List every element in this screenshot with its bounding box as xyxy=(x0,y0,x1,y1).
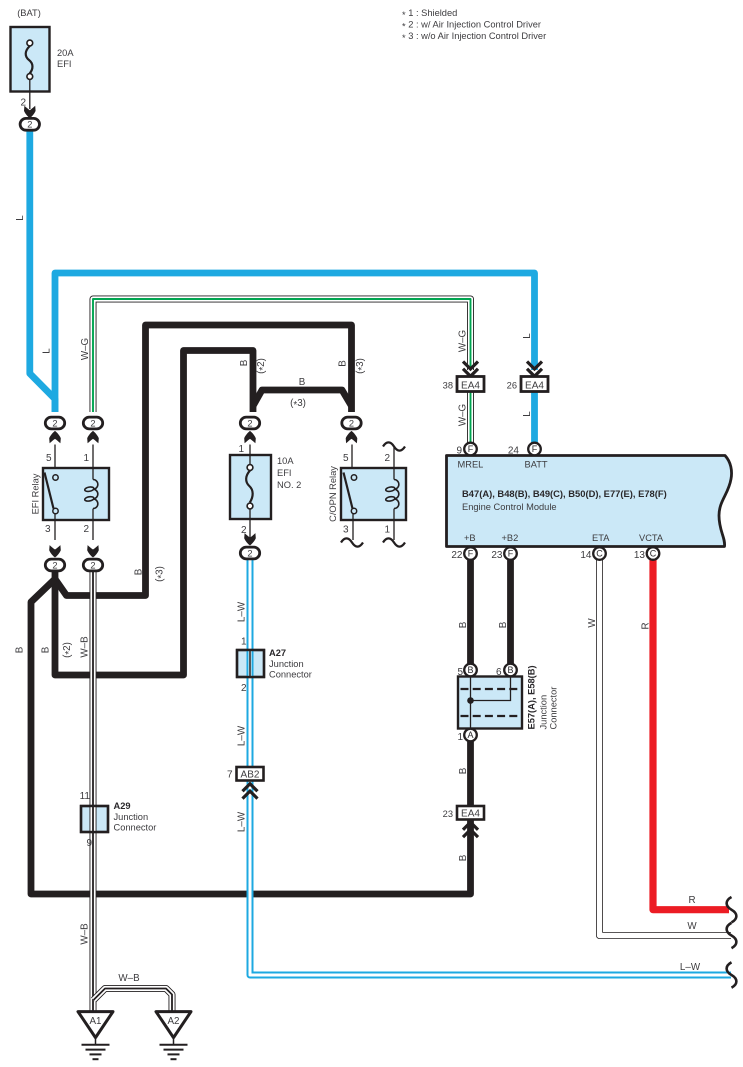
wire B outer ground loop left and bottom xyxy=(31,579,471,894)
label B on fuse drop riser xyxy=(239,359,250,366)
ground A2 xyxy=(156,1012,191,1060)
svg-text:W: W xyxy=(687,921,697,932)
svg-text:BATT: BATT xyxy=(525,460,548,470)
label B between 1A and EA4-23 xyxy=(458,767,469,774)
label R on vertical xyxy=(641,622,652,629)
chevron double arrow below EA4-23 xyxy=(463,822,478,837)
svg-text:+B2: +B2 xyxy=(502,533,519,543)
svg-text:5: 5 xyxy=(457,667,463,678)
squiggle W end xyxy=(727,923,737,948)
oval 2 below EFI relay pin2 xyxy=(83,559,102,571)
svg-text:14: 14 xyxy=(580,550,592,561)
svg-text:A1: A1 xyxy=(90,1016,102,1027)
wire R from ECM VCTA to right edge xyxy=(653,559,729,910)
svg-text:AB2: AB2 xyxy=(241,770,260,781)
svg-text:ETA: ETA xyxy=(592,533,610,543)
svg-text:W–G: W–G xyxy=(458,330,469,352)
svg-text:A2: A2 xyxy=(168,1016,180,1027)
label Junction rotated xyxy=(539,695,549,730)
wire L horizontal feed to BATT xyxy=(55,273,535,412)
junction connector A27 xyxy=(237,650,264,677)
legend note xyxy=(402,8,546,43)
svg-text:L: L xyxy=(15,215,26,221)
svg-text:23: 23 xyxy=(491,550,503,561)
svg-text:1: 1 xyxy=(238,444,244,455)
svg-text:L: L xyxy=(522,411,533,417)
label W-B upper xyxy=(80,636,91,658)
svg-text:(*2): (*2) xyxy=(62,642,75,658)
svg-text:5: 5 xyxy=(46,453,52,464)
svg-text:A29: A29 xyxy=(114,801,131,811)
squiggle C/OPN pin3 bottom xyxy=(341,538,363,546)
svg-text:3: 3 xyxy=(45,524,51,535)
wire L-W from AB2 to right edge xyxy=(250,781,731,975)
wire W from ECM ETA to right edge xyxy=(600,559,732,936)
wire W-G from EA4-38 to ECM MREL pin xyxy=(467,392,474,444)
svg-text:24: 24 xyxy=(508,446,520,457)
label L above EFI relay xyxy=(42,348,53,354)
svg-text:B: B xyxy=(15,646,26,653)
svg-text:R: R xyxy=(641,622,652,629)
svg-text:2: 2 xyxy=(384,453,390,464)
ECM pin 23 +B2 xyxy=(491,547,516,561)
svg-text:B: B xyxy=(507,665,513,675)
chevron double arrow below AB2 xyxy=(243,784,258,799)
svg-text:13: 13 xyxy=(634,550,646,561)
svg-text:R: R xyxy=(688,895,695,906)
svg-text:23: 23 xyxy=(443,809,453,819)
label B on x146 riser xyxy=(134,568,145,575)
svg-text:EA4: EA4 xyxy=(461,809,480,820)
oval 2 below EFI relay pin3 xyxy=(45,559,64,571)
label B on +B wire xyxy=(458,621,469,628)
svg-text:* 1 : Shielded: * 1 : Shielded xyxy=(402,8,457,20)
svg-text:E57(A), E58(B): E57(A), E58(B) xyxy=(527,665,537,729)
svg-text:NO. 2: NO. 2 xyxy=(277,480,301,490)
label W-G below EA4-38 xyxy=(458,404,469,426)
label L below EA4-26 xyxy=(522,411,533,417)
wire L-W from fuse NO.2 through A27 to AB2 xyxy=(247,560,254,767)
wire W-G from EFI relay pin1 to EA4-38 xyxy=(93,299,471,412)
svg-text:EFI Relay: EFI Relay xyxy=(31,473,41,514)
label Connector rotated xyxy=(549,687,559,730)
svg-text:L–W: L–W xyxy=(237,725,248,746)
svg-text:6: 6 xyxy=(496,667,502,678)
arrow up at EFI relay pin5 xyxy=(49,431,61,443)
svg-text:9: 9 xyxy=(456,446,462,457)
svg-text:Junction: Junction xyxy=(269,659,304,669)
C/OPN relay xyxy=(328,445,406,541)
svg-text:L–W: L–W xyxy=(237,811,248,832)
svg-text:EFI: EFI xyxy=(277,468,291,478)
svg-text:2: 2 xyxy=(247,548,252,558)
svg-text:B: B xyxy=(498,621,509,628)
ground A1 xyxy=(78,1012,113,1060)
ECM pin 14 ETA xyxy=(580,547,605,561)
svg-text:Connector: Connector xyxy=(549,687,559,730)
svg-text:L: L xyxy=(522,333,533,339)
arrow down at EFI relay pin3 xyxy=(49,545,61,557)
A29 labels xyxy=(80,791,157,849)
svg-text:10A: 10A xyxy=(277,456,294,466)
label L-W 1 xyxy=(237,601,248,622)
svg-text:2: 2 xyxy=(27,120,32,130)
svg-text:F: F xyxy=(532,444,538,454)
svg-text:B: B xyxy=(458,767,469,774)
E57 pin 5 circle B xyxy=(457,664,476,678)
ECM pin 24 BATT xyxy=(508,443,541,457)
label W on vertical xyxy=(587,618,598,628)
svg-text:2: 2 xyxy=(247,418,252,428)
svg-text:C/OPN Relay: C/OPN Relay xyxy=(328,466,338,522)
svg-text:2: 2 xyxy=(241,525,247,536)
ECM pin 13 VCTA xyxy=(634,547,659,561)
svg-text:Junction: Junction xyxy=(539,695,549,730)
arrow down at fuse NO.2 pin2 xyxy=(244,533,256,545)
svg-text:Connector: Connector xyxy=(114,823,157,833)
junction connector E57(A) E58(B) xyxy=(458,677,522,729)
E57 pin 1 circle A xyxy=(457,729,476,743)
wire B (*3) bridge fuse to C/OPN xyxy=(253,390,352,406)
svg-text:Engine Control Module: Engine Control Module xyxy=(462,502,557,512)
svg-text:* 3 : w/o Air Injection Contro: * 3 : w/o Air Injection Control Driver xyxy=(402,31,546,43)
svg-text:C: C xyxy=(596,549,603,559)
svg-text:W–B: W–B xyxy=(118,973,140,984)
arrow up at fuse NO.2 pin1 xyxy=(244,431,256,443)
label W-B lower xyxy=(80,923,91,945)
svg-text:2: 2 xyxy=(83,524,89,535)
svg-text:L–W: L–W xyxy=(237,601,248,622)
A27 labels xyxy=(241,637,312,695)
arrow down at fuse pin2 xyxy=(24,106,36,118)
svg-text:MREL: MREL xyxy=(458,460,484,470)
connector EA4-38 xyxy=(443,377,484,392)
oval 2 above fuse NO.2 xyxy=(240,417,259,429)
wire W-B branch to ground A2 xyxy=(94,989,173,1012)
svg-text:(*3): (*3) xyxy=(290,398,306,411)
connector EA4-23 xyxy=(443,806,484,820)
svg-text:B: B xyxy=(239,359,250,366)
fuse 10A EFI NO.2 xyxy=(230,444,301,540)
label (*2) on fuse drop riser xyxy=(256,358,269,374)
wire B (*2) inner loop EFI relay pin3 to EFI NO.2 fuse xyxy=(55,351,253,676)
wire B from E57 pin1 to EA4-23 xyxy=(467,741,474,806)
EFI relay xyxy=(31,445,110,541)
svg-text:5: 5 xyxy=(343,453,349,464)
svg-text:3: 3 xyxy=(343,525,349,536)
svg-text:F: F xyxy=(468,549,474,559)
wire B (*3) outer loop EFI relay pin3 to C/OPN relay pin5 xyxy=(55,325,352,596)
svg-text:W–B: W–B xyxy=(80,636,91,658)
label B outer left xyxy=(15,646,26,653)
svg-text:(BAT): (BAT) xyxy=(17,8,41,18)
arrow up at C/OPN pin5 xyxy=(346,431,358,443)
oval connector 2 below fuse xyxy=(20,118,39,130)
svg-text:2: 2 xyxy=(90,418,95,428)
svg-text:11: 11 xyxy=(80,791,91,802)
svg-text:EA4: EA4 xyxy=(461,381,480,392)
svg-text:* 2 : w/ Air Injection Control: * 2 : w/ Air Injection Control Driver xyxy=(402,20,541,32)
svg-text:B47(A), B48(B), B49(C), B50(D): B47(A), B48(B), B49(C), B50(D), E77(E), … xyxy=(462,488,667,499)
label W-G left xyxy=(80,338,91,360)
ECM pin 22 +B xyxy=(451,547,476,561)
oval 2 above EFI relay pin5 xyxy=(45,417,64,429)
label B below EA4-23 xyxy=(458,854,469,861)
svg-text:W: W xyxy=(587,618,598,628)
svg-text:W–B: W–B xyxy=(80,923,91,945)
fuse 20A EFI (BAT) xyxy=(11,8,75,109)
svg-text:A27: A27 xyxy=(269,648,286,658)
svg-text:B: B xyxy=(458,621,469,628)
svg-text:L: L xyxy=(42,348,53,354)
label (*3) on x146 riser xyxy=(155,566,168,582)
arrow down at EFI relay pin2 xyxy=(87,545,99,557)
svg-text:B: B xyxy=(467,665,473,675)
arrow up at EFI relay pin1 xyxy=(87,431,99,443)
svg-text:B: B xyxy=(41,646,52,653)
wire B from ECM +B to E57 pin5 xyxy=(467,559,474,664)
label B on C/OPN drop riser xyxy=(338,360,349,367)
svg-text:9: 9 xyxy=(86,838,92,849)
svg-text:+B: +B xyxy=(464,533,476,543)
chevron double arrow above EA4-26 xyxy=(527,362,542,377)
label W-G above EA4-38 xyxy=(458,330,469,352)
chevron double arrow above EA4-38 xyxy=(463,362,478,377)
svg-text:B: B xyxy=(338,360,349,367)
svg-text:(*3): (*3) xyxy=(355,358,368,374)
label (*2) inner leg xyxy=(62,642,75,658)
svg-text:2: 2 xyxy=(52,560,57,570)
oval 2 above C/OPN pin5 xyxy=(342,417,361,429)
wire W-B from EFI relay pin2 to ground A1 xyxy=(90,570,97,1011)
svg-text:EFI: EFI xyxy=(57,59,71,69)
oval 2 above EFI relay pin1 xyxy=(83,417,102,429)
label E57(A), E58(B) rotated xyxy=(527,665,537,729)
svg-text:1: 1 xyxy=(241,637,247,648)
wire L from fuse to EFI relay junction xyxy=(30,130,55,412)
svg-text:B: B xyxy=(299,377,306,388)
connector EA4-26 xyxy=(507,377,548,392)
A27 wire pass-through xyxy=(237,650,264,677)
svg-text:(*3): (*3) xyxy=(155,566,168,582)
label B inner (*2) leg xyxy=(41,646,52,653)
svg-text:L–W: L–W xyxy=(680,962,701,973)
svg-text:2: 2 xyxy=(241,683,247,694)
svg-text:F: F xyxy=(468,444,474,454)
label L-W 3 xyxy=(237,811,248,832)
svg-text:1: 1 xyxy=(83,453,89,464)
svg-text:C: C xyxy=(650,549,657,559)
svg-text:B: B xyxy=(458,854,469,861)
svg-text:A: A xyxy=(467,730,473,740)
squiggle L-W end xyxy=(727,962,737,987)
svg-text:38: 38 xyxy=(443,380,453,390)
squiggle C/OPN pin2 top xyxy=(383,442,405,450)
label L above EA4-26 xyxy=(522,333,533,339)
label L-W 2 xyxy=(237,725,248,746)
svg-text:Connector: Connector xyxy=(269,670,312,680)
connector AB2 xyxy=(227,767,264,781)
ECM pin 9 MREL xyxy=(456,443,476,457)
svg-text:26: 26 xyxy=(507,380,517,390)
svg-text:F: F xyxy=(508,549,514,559)
svg-text:22: 22 xyxy=(451,550,463,561)
svg-text:2: 2 xyxy=(349,418,354,428)
wire B from ECM +B2 to E58 pin6 xyxy=(507,559,514,664)
label B on +B2 wire xyxy=(498,621,509,628)
E58 pin 6 circle B xyxy=(496,664,517,678)
svg-text:EA4: EA4 xyxy=(525,381,544,392)
squiggle R end xyxy=(727,897,737,922)
svg-text:Junction: Junction xyxy=(114,812,149,822)
svg-text:VCTA: VCTA xyxy=(639,533,664,543)
svg-text:2: 2 xyxy=(90,560,95,570)
wire L from EA4-26 to ECM BATT pin xyxy=(531,392,538,444)
svg-text:7: 7 xyxy=(227,770,233,781)
svg-text:B: B xyxy=(134,568,145,575)
ECM box B47 B48 B49 B50 E77 E78 xyxy=(447,456,732,547)
svg-text:2: 2 xyxy=(52,418,57,428)
label L on fuse drop xyxy=(15,215,26,221)
svg-text:W–G: W–G xyxy=(458,404,469,426)
svg-text:(*2): (*2) xyxy=(256,358,269,374)
svg-text:1: 1 xyxy=(384,525,390,536)
squiggle C/OPN pin1 bottom xyxy=(383,538,405,546)
junction connector A29 xyxy=(81,806,108,832)
svg-text:1: 1 xyxy=(457,732,463,743)
oval 2 below fuse NO.2 xyxy=(240,547,259,559)
label (*3) on C/OPN drop riser xyxy=(355,358,368,374)
svg-text:20A: 20A xyxy=(57,48,74,58)
svg-text:W–G: W–G xyxy=(80,338,91,360)
